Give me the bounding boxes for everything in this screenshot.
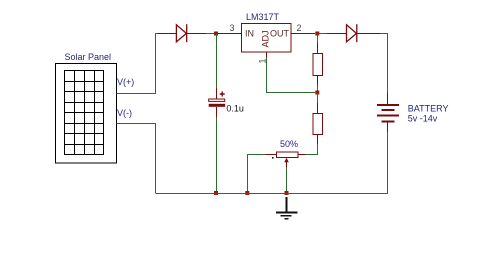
diode D1 [158, 24, 206, 42]
svg-text:50%: 50% [280, 139, 298, 149]
junction C1 / ground rail [214, 191, 218, 195]
junction P1 left / ground rail [245, 191, 249, 195]
ground rail wire [156, 193, 389, 195]
capacitor C1 [209, 88, 226, 118]
wire V(+) to top rail [117, 34, 159, 94]
svg-text:2: 2 [297, 23, 302, 33]
wire node OUT to D2 [319, 33, 328, 35]
U1 pin 1 lead [266, 52, 268, 58]
svg-text:Solar Panel: Solar Panel [65, 52, 112, 62]
svg-text:ADJ: ADJ [261, 30, 271, 47]
svg-text:BATTERY: BATTERY [408, 103, 449, 113]
wire U1 pin1 to node ADJ [267, 57, 316, 93]
wire V(-) to ground rail [117, 124, 156, 194]
solar panel PV1 [56, 64, 117, 164]
battery BT1 [377, 93, 399, 133]
ground symbol [276, 197, 298, 219]
regulator U1 LM317T [242, 24, 292, 53]
wire R2 to P1 right terminal [306, 144, 317, 155]
U1 pin 2 lead [291, 33, 315, 35]
svg-text:3: 3 [230, 23, 235, 33]
svg-text:LM317T: LM317T [246, 12, 280, 22]
junction node OUT [315, 32, 319, 36]
svg-text:V(-): V(-) [117, 108, 132, 118]
svg-text:5v -14v: 5v -14v [408, 114, 438, 124]
resistor R2 [313, 93, 323, 145]
wire node IN down to C1 [216, 34, 218, 91]
wire node OUT to R1 [316, 34, 318, 45]
svg-text:IN: IN [245, 29, 254, 39]
wire battery - to ground rail [387, 132, 389, 193]
resistor R1 [313, 43, 323, 85]
wire D1 cathode to node IN [206, 33, 216, 35]
P1 wiper position dot [272, 157, 274, 159]
potentiometer P1 [266, 152, 306, 168]
wire D2 cathode to battery + [381, 34, 388, 95]
wire P1 left terminal to ground rail [247, 155, 266, 194]
svg-text:0.1u: 0.1u [226, 104, 244, 114]
svg-text:V(+): V(+) [117, 77, 134, 87]
svg-text:OUT: OUT [270, 29, 290, 39]
wire C1 to ground rail [216, 117, 218, 193]
wire R1 to node ADJ [316, 85, 318, 93]
wire P1 wiper to ground rail [286, 167, 288, 193]
junction wiper / ground rail [285, 191, 289, 195]
junction node ADJ [315, 91, 319, 95]
junction node IN [214, 32, 218, 36]
wire node IN to U1 pin 3 [218, 33, 241, 35]
diode D2 [327, 24, 381, 42]
